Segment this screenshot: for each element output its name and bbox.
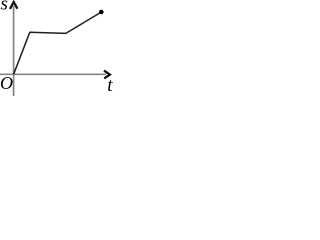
svg-text:t: t [107, 75, 113, 96]
curve: steep rise, flat, moderate rise [14, 12, 102, 74]
horizontal axis t [0, 73, 106, 75]
svg-text:O: O [0, 73, 13, 93]
svg-text:s: s [1, 0, 8, 14]
horizontal axis arrowhead [104, 71, 110, 79]
vertical axis arrowhead [10, 2, 17, 9]
vertical axis s [13, 6, 15, 96]
endpoint dot [99, 10, 104, 15]
